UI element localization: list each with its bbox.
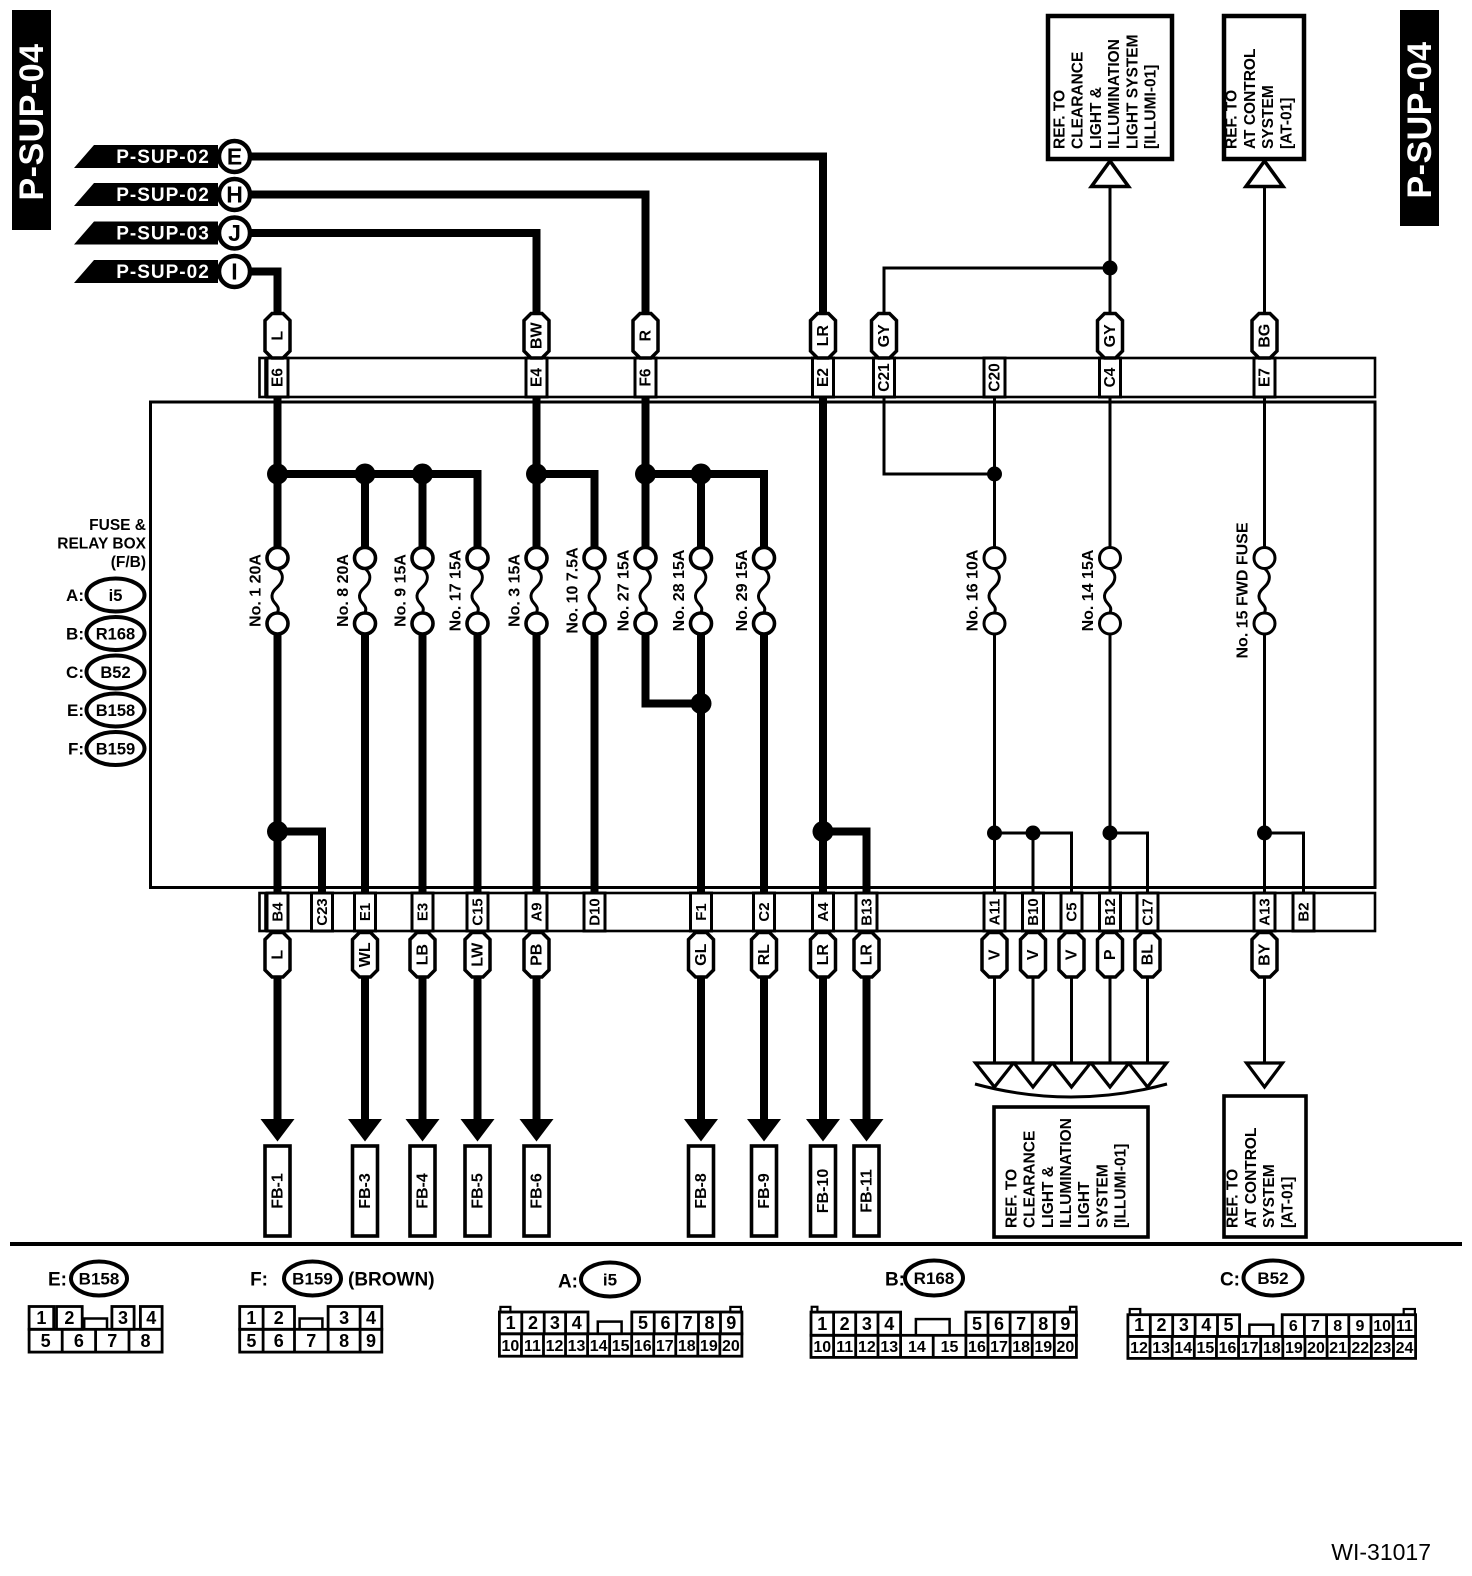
connector diagram F: B159 (BROWN) (240, 1262, 435, 1353)
svg-text:F6: F6 (638, 368, 655, 386)
connector ref E: B158 (67, 694, 145, 727)
junction dot F6 bus at No.28 (691, 464, 712, 485)
top connector strip of fuse & relay box (260, 358, 1376, 397)
wire E2 to A4 (819, 397, 827, 893)
svg-text:15: 15 (1196, 1340, 1214, 1357)
svg-text:5: 5 (41, 1331, 51, 1351)
wire No.29 fuse to C2 (760, 634, 768, 893)
wire color tag V (1021, 933, 1046, 978)
svg-text:B:: B: (885, 1270, 905, 1291)
connector pin B12 (1100, 893, 1121, 931)
svg-text:C20: C20 (987, 363, 1004, 391)
bottom connector strip of fuse & relay box (260, 893, 1376, 931)
wire color tag GY (872, 314, 897, 359)
svg-text:8: 8 (141, 1331, 151, 1351)
svg-text:2: 2 (274, 1308, 284, 1328)
svg-text:C15: C15 (470, 898, 487, 926)
svg-text:9: 9 (1355, 1318, 1364, 1335)
wire color tag R (633, 314, 658, 359)
svg-text:LR: LR (859, 944, 876, 966)
svg-text:13: 13 (568, 1338, 586, 1355)
wire F6 branch bus (646, 397, 765, 548)
svg-text:E7: E7 (1257, 368, 1274, 387)
drawing number WI-31017 (1331, 1539, 1431, 1565)
wire to illumination light system arrow (1091, 977, 1129, 1087)
svg-text:No. 8 20A: No. 8 20A (335, 554, 352, 627)
svg-text:A:: A: (66, 586, 84, 605)
svg-text:E4: E4 (529, 368, 546, 387)
wire to illumination light system arrow (1014, 977, 1052, 1087)
connector pin C17 (1137, 893, 1158, 931)
svg-text:B158: B158 (96, 702, 135, 720)
svg-text:D10: D10 (587, 898, 604, 926)
svg-text:SYSTEM: SYSTEM (1094, 1164, 1111, 1228)
svg-text:CLEARANCE: CLEARANCE (1022, 1131, 1039, 1228)
fuse & relay box outline (151, 402, 1376, 888)
wire flag E to connector E2 (250, 157, 823, 318)
junction dot B10 (1026, 826, 1041, 841)
svg-text:4: 4 (146, 1308, 156, 1328)
svg-text:C:: C: (66, 663, 84, 682)
svg-text:9: 9 (1060, 1314, 1070, 1334)
svg-text:SYSTEM: SYSTEM (1260, 85, 1277, 149)
wire color tag L (265, 933, 290, 978)
connector pin B13 (856, 893, 877, 931)
connector pin C15 (467, 893, 488, 931)
svg-text:E3: E3 (415, 903, 432, 921)
svg-text:20: 20 (722, 1338, 740, 1355)
wire No.10 fuse to D10 (591, 634, 599, 893)
connector pin A13 (1254, 893, 1275, 931)
svg-text:H: H (226, 182, 243, 208)
svg-text:P-SUP-02: P-SUP-02 (116, 147, 210, 168)
svg-text:E:: E: (48, 1270, 67, 1291)
svg-text:20: 20 (1056, 1339, 1074, 1356)
svg-text:3: 3 (550, 1313, 560, 1333)
wire color tag LR (811, 314, 836, 359)
svg-text:18: 18 (678, 1338, 696, 1355)
svg-text:SYSTEM: SYSTEM (1261, 1164, 1278, 1228)
svg-text:1: 1 (506, 1313, 516, 1333)
svg-text:22: 22 (1351, 1340, 1369, 1357)
svg-text:17: 17 (1241, 1340, 1259, 1357)
connector pin A9 (526, 893, 547, 931)
arrow to FB-10 (806, 977, 840, 1142)
wire E4 branch bus (537, 397, 595, 548)
svg-text:LIGHT &: LIGHT & (1040, 1166, 1057, 1228)
svg-text:13: 13 (1152, 1340, 1170, 1357)
svg-text:B13: B13 (859, 898, 876, 926)
wire to illumination light system arrow (1129, 977, 1167, 1087)
connector pin F1 (691, 893, 712, 931)
svg-text:BW: BW (529, 322, 546, 350)
svg-text:AT CONTROL: AT CONTROL (1242, 49, 1259, 149)
svg-text:24: 24 (1396, 1340, 1414, 1357)
svg-text:10: 10 (502, 1338, 520, 1355)
junction dot A4/B13 (813, 821, 834, 842)
svg-text:19: 19 (700, 1338, 718, 1355)
svg-text:9: 9 (726, 1313, 736, 1333)
svg-text:No. 10 7.5A: No. 10 7.5A (565, 547, 582, 634)
connector pin E7 (1254, 358, 1275, 397)
svg-text:ILLUMINATION: ILLUMINATION (1106, 39, 1123, 149)
wire to illumination light system arrow (976, 977, 1014, 1087)
connector pin E1 (355, 893, 376, 931)
wire color tag BG (1252, 314, 1277, 359)
svg-text:CLEARANCE: CLEARANCE (1070, 52, 1087, 149)
svg-text:REF. TO: REF. TO (1003, 1169, 1020, 1228)
svg-text:AT CONTROL: AT CONTROL (1243, 1128, 1260, 1228)
svg-text:10: 10 (1373, 1318, 1391, 1335)
wire color tag BW (524, 314, 549, 359)
svg-text:GY: GY (1102, 324, 1119, 347)
junction dot E4 bus (526, 464, 547, 485)
wire color tag V (1059, 933, 1084, 978)
right page banner P-SUP-04 (1400, 10, 1439, 226)
svg-text:21: 21 (1329, 1340, 1347, 1357)
svg-text:11: 11 (836, 1339, 853, 1356)
wire No.8 fuse to E1 (361, 634, 369, 893)
svg-text:REF. TO: REF. TO (1225, 1169, 1242, 1228)
wire flag I to connector E6 (250, 272, 278, 318)
wire E7 to No.15 fuse (1263, 397, 1266, 548)
svg-text:16: 16 (1219, 1340, 1237, 1357)
svg-text:No. 28 15A: No. 28 15A (671, 549, 688, 631)
fuse No. 28 15A (671, 548, 712, 635)
svg-text:LR: LR (815, 944, 832, 966)
wire branch to C17 (1110, 833, 1148, 893)
svg-text:16: 16 (634, 1338, 652, 1355)
wire color tag LR (811, 933, 836, 978)
connector pin E4 (526, 358, 547, 397)
box REF. TO CLEARANCE LIGHT & ILLUMINATION LIGHT SYSTEM [ILLUMI-01] (top) (1048, 16, 1172, 159)
wire color tag PB (524, 933, 549, 978)
fuse No. 15 FWD FUSE (1235, 522, 1276, 658)
svg-text:17: 17 (656, 1338, 674, 1355)
svg-text:No. 14 15A: No. 14 15A (1080, 549, 1097, 631)
wire C4 to No.14 fuse (1109, 397, 1112, 548)
svg-text:REF. TO: REF. TO (1052, 90, 1069, 149)
wire branch to C23 (278, 832, 323, 894)
wire No.17 fuse to C15 (474, 634, 482, 893)
connector ref F: B159 (68, 732, 145, 765)
svg-text:No. 15 FWD FUSE: No. 15 FWD FUSE (1235, 522, 1252, 658)
terminal FB-5 (465, 1146, 490, 1236)
wire color tag V (982, 933, 1007, 978)
fuse No. 29 15A (734, 548, 775, 635)
svg-text:10: 10 (813, 1339, 831, 1356)
svg-text:2: 2 (840, 1314, 850, 1334)
svg-text:[ILLUMI-01]: [ILLUMI-01] (1143, 65, 1160, 149)
svg-text:P-SUP-03: P-SUP-03 (116, 224, 210, 245)
svg-text:GY: GY (876, 324, 893, 347)
svg-text:REF. TO: REF. TO (1224, 90, 1241, 149)
junction dot A11 (987, 826, 1002, 841)
connector ref B: R168 (66, 617, 144, 650)
svg-text:[ILLUMI-01]: [ILLUMI-01] (1113, 1144, 1130, 1228)
svg-text:5: 5 (246, 1331, 256, 1351)
arrow up to illumination light system (1092, 161, 1129, 187)
svg-text:C17: C17 (1140, 898, 1157, 926)
svg-text:LR: LR (815, 325, 832, 347)
svg-text:BL: BL (1140, 944, 1157, 966)
svg-text:PB: PB (529, 944, 546, 966)
svg-text:i5: i5 (109, 587, 123, 605)
svg-text:1: 1 (817, 1314, 827, 1334)
svg-text:No. 27 15A: No. 27 15A (616, 549, 633, 631)
junction dot E6 bus at No.9 (412, 464, 433, 485)
svg-text:11: 11 (1396, 1318, 1413, 1335)
connector pin C5 (1061, 893, 1082, 931)
svg-text:BG: BG (1257, 324, 1274, 348)
svg-text:C:: C: (1220, 1270, 1240, 1291)
svg-text:4: 4 (1201, 1315, 1211, 1335)
wire C21 GY branch to C4 wire (884, 268, 1110, 318)
fuse No. 14 15A (1080, 548, 1121, 635)
terminal FB-11 (854, 1146, 879, 1236)
svg-text:3: 3 (118, 1308, 128, 1328)
separator line (10, 1242, 1462, 1246)
svg-text:14: 14 (908, 1339, 926, 1356)
svg-text:A:: A: (558, 1272, 578, 1293)
flag P-SUP-03 (J) (74, 218, 250, 249)
wire color tag GL (689, 933, 714, 978)
svg-text:LIGHT: LIGHT (1076, 1181, 1093, 1228)
connector pin E3 (412, 893, 433, 931)
svg-text:18: 18 (1263, 1340, 1281, 1357)
svg-text:6: 6 (74, 1331, 84, 1351)
svg-text:23: 23 (1374, 1340, 1392, 1357)
svg-text:P: P (1102, 949, 1119, 960)
box REF. TO CLEARANCE LIGHT & ILLUMINATION LIGHT SYSTEM [ILLUMI-01] (bottom) (994, 1107, 1148, 1237)
terminal FB-3 (353, 1146, 378, 1236)
svg-text:FB-8: FB-8 (693, 1173, 710, 1209)
fuse No. 9 15A (393, 548, 434, 635)
svg-text:4: 4 (572, 1313, 582, 1333)
svg-text:No. 17 15A: No. 17 15A (448, 549, 465, 631)
junction dot B12 (1103, 826, 1118, 841)
svg-text:P-SUP-04: P-SUP-04 (1401, 41, 1439, 198)
junction dot E6 bus at No.1 (267, 464, 288, 485)
wire C20 to No.16 fuse (993, 397, 996, 548)
svg-text:18: 18 (1012, 1339, 1030, 1356)
arrow to FB-1 (261, 977, 295, 1142)
svg-text:3: 3 (339, 1308, 349, 1328)
svg-text:(F/B): (F/B) (111, 554, 146, 571)
terminal FB-4 (410, 1146, 435, 1236)
svg-text:L: L (270, 950, 287, 960)
svg-text:No. 3 15A: No. 3 15A (507, 554, 524, 627)
svg-text:FB-9: FB-9 (756, 1173, 773, 1209)
flag P-SUP-02 (I) (74, 256, 250, 287)
arrow to FB-3 (348, 977, 382, 1142)
wire branch to B10 and C5 (995, 833, 1072, 893)
svg-text:7: 7 (683, 1313, 693, 1333)
svg-text:A13: A13 (1257, 898, 1274, 926)
wire color tag GY (1098, 314, 1123, 359)
connector pin C4 (1100, 358, 1121, 397)
svg-text:12: 12 (1130, 1340, 1148, 1357)
svg-text:E: E (227, 144, 242, 170)
svg-text:R168: R168 (96, 626, 135, 644)
svg-text:1: 1 (1134, 1315, 1144, 1335)
wire flag J to connector E4 (250, 233, 537, 318)
svg-text:3: 3 (1179, 1315, 1189, 1335)
svg-text:C5: C5 (1064, 902, 1081, 921)
svg-text:L: L (270, 331, 287, 341)
connector pin C2 (754, 893, 775, 931)
connector pin F6 (635, 358, 656, 397)
svg-text:F:: F: (68, 740, 84, 759)
connector pin B2 (1293, 893, 1314, 931)
svg-text:B2: B2 (1296, 902, 1313, 921)
fuse No. 17 15A (448, 548, 489, 635)
junction dot on C4 wire (1103, 261, 1118, 276)
fuse No. 8 20A (335, 548, 376, 635)
wire color tag P (1098, 933, 1123, 978)
svg-text:R168: R168 (914, 1269, 955, 1288)
connector pin C21 (874, 358, 895, 397)
connector pin A4 (813, 893, 834, 931)
svg-text:6: 6 (660, 1313, 670, 1333)
svg-text:I: I (231, 259, 237, 285)
svg-text:15: 15 (612, 1338, 630, 1355)
svg-text:8: 8 (339, 1331, 349, 1351)
junction dot F6 bus at No.27 (635, 464, 656, 485)
fuse No. 3 15A (507, 548, 548, 635)
svg-text:A11: A11 (987, 899, 1004, 926)
svg-text:RELAY BOX: RELAY BOX (57, 536, 146, 553)
svg-text:19: 19 (1034, 1339, 1052, 1356)
connector pin C23 (312, 893, 333, 931)
svg-text:7: 7 (306, 1331, 316, 1351)
connector pin B4 (267, 893, 288, 931)
wire No.14 fuse to B12 (1109, 634, 1112, 893)
connector diagram B: R168 (811, 1261, 1076, 1358)
svg-text:15: 15 (941, 1339, 959, 1356)
svg-text:LIGHT SYSTEM: LIGHT SYSTEM (1124, 34, 1141, 149)
svg-text:B:: B: (66, 625, 84, 644)
svg-text:LW: LW (470, 942, 487, 967)
svg-text:B52: B52 (100, 664, 130, 682)
svg-text:B158: B158 (79, 1270, 120, 1289)
svg-text:C23: C23 (314, 898, 331, 926)
svg-text:R: R (638, 330, 655, 342)
svg-text:[AT-01]: [AT-01] (1278, 98, 1295, 149)
svg-text:(BROWN): (BROWN) (348, 1270, 435, 1291)
arrow to FB-9 (747, 977, 781, 1142)
svg-text:C21: C21 (876, 363, 893, 392)
svg-text:FUSE &: FUSE & (89, 517, 146, 534)
svg-text:FB-11: FB-11 (859, 1169, 876, 1213)
wire flag H to connector F6 (250, 195, 646, 318)
svg-text:4: 4 (884, 1314, 894, 1334)
arrow to FB-6 (520, 977, 554, 1142)
wire No.16 fuse to A11 (993, 634, 996, 893)
flag P-SUP-02 (E) (74, 141, 250, 172)
wire No.27 fuse joining No.28 output (646, 634, 702, 704)
wire color tag LR (854, 933, 879, 978)
svg-text:FB-10: FB-10 (815, 1169, 832, 1214)
wire C21 to C20 bus (884, 397, 995, 474)
svg-text:3: 3 (862, 1314, 872, 1334)
svg-text:E6: E6 (270, 368, 287, 387)
svg-text:6: 6 (1289, 1318, 1298, 1335)
svg-text:WL: WL (357, 942, 374, 967)
svg-text:FB-3: FB-3 (357, 1173, 374, 1209)
terminal FB-8 (689, 1146, 714, 1236)
svg-text:12: 12 (546, 1338, 564, 1355)
label FUSE & RELAY BOX (F/B) (57, 517, 146, 571)
svg-text:F:: F: (250, 1270, 268, 1291)
svg-text:11: 11 (524, 1338, 541, 1355)
wire to AT control system arrow (1247, 977, 1283, 1087)
wire No.9 fuse to E3 (419, 634, 427, 893)
connector pin E2 (813, 358, 834, 397)
connector pin A11 (984, 893, 1005, 931)
wire color tag BL (1135, 933, 1160, 978)
svg-text:B10: B10 (1025, 898, 1042, 926)
svg-text:8: 8 (1333, 1318, 1342, 1335)
svg-text:19: 19 (1285, 1340, 1303, 1357)
wire branch to B13 (823, 832, 867, 894)
svg-text:2: 2 (528, 1313, 538, 1333)
wire No.15 fuse to A13 (1263, 634, 1266, 893)
arrow to FB-5 (461, 977, 495, 1142)
wire color tag LW (465, 933, 490, 978)
svg-text:6: 6 (994, 1314, 1004, 1334)
connector ref A: i5 (66, 579, 144, 612)
svg-text:14: 14 (590, 1338, 608, 1355)
svg-text:A4: A4 (815, 902, 832, 922)
svg-text:17: 17 (990, 1339, 1008, 1356)
terminal FB-10 (811, 1146, 836, 1236)
svg-text:B159: B159 (292, 1270, 333, 1289)
arrow to FB-4 (406, 977, 440, 1142)
svg-text:B159: B159 (96, 741, 135, 759)
svg-text:C4: C4 (1102, 367, 1119, 387)
svg-text:5: 5 (1224, 1315, 1234, 1335)
fuse No. 1 20A (248, 548, 289, 635)
svg-text:7: 7 (1016, 1314, 1026, 1334)
svg-text:FB-5: FB-5 (470, 1173, 487, 1209)
wire to illumination light system arrow (1053, 977, 1091, 1087)
svg-text:J: J (228, 220, 241, 246)
svg-text:20: 20 (1307, 1340, 1325, 1357)
terminal FB-1 (265, 1146, 290, 1236)
wire No.1 fuse to B4 (274, 634, 282, 893)
svg-text:16: 16 (968, 1339, 986, 1356)
svg-text:LIGHT &: LIGHT & (1088, 87, 1105, 149)
svg-text:F1: F1 (693, 903, 710, 921)
arrow to FB-8 (684, 977, 718, 1142)
connector diagram A: i5 (499, 1263, 742, 1357)
wire color tag WL (353, 933, 378, 978)
svg-text:V: V (1064, 949, 1081, 960)
wire color tag LB (410, 933, 435, 978)
svg-text:FB-1: FB-1 (270, 1173, 287, 1209)
svg-text:13: 13 (880, 1339, 898, 1356)
svg-text:No. 29 15A: No. 29 15A (734, 549, 751, 631)
svg-text:B4: B4 (270, 902, 287, 922)
svg-text:A9: A9 (529, 902, 546, 921)
svg-text:E:: E: (67, 701, 84, 720)
wire color tag RL (752, 933, 777, 978)
svg-text:14: 14 (1174, 1340, 1192, 1357)
svg-text:E1: E1 (357, 903, 374, 921)
svg-text:2: 2 (64, 1308, 74, 1328)
flag P-SUP-02 (H) (74, 179, 250, 210)
